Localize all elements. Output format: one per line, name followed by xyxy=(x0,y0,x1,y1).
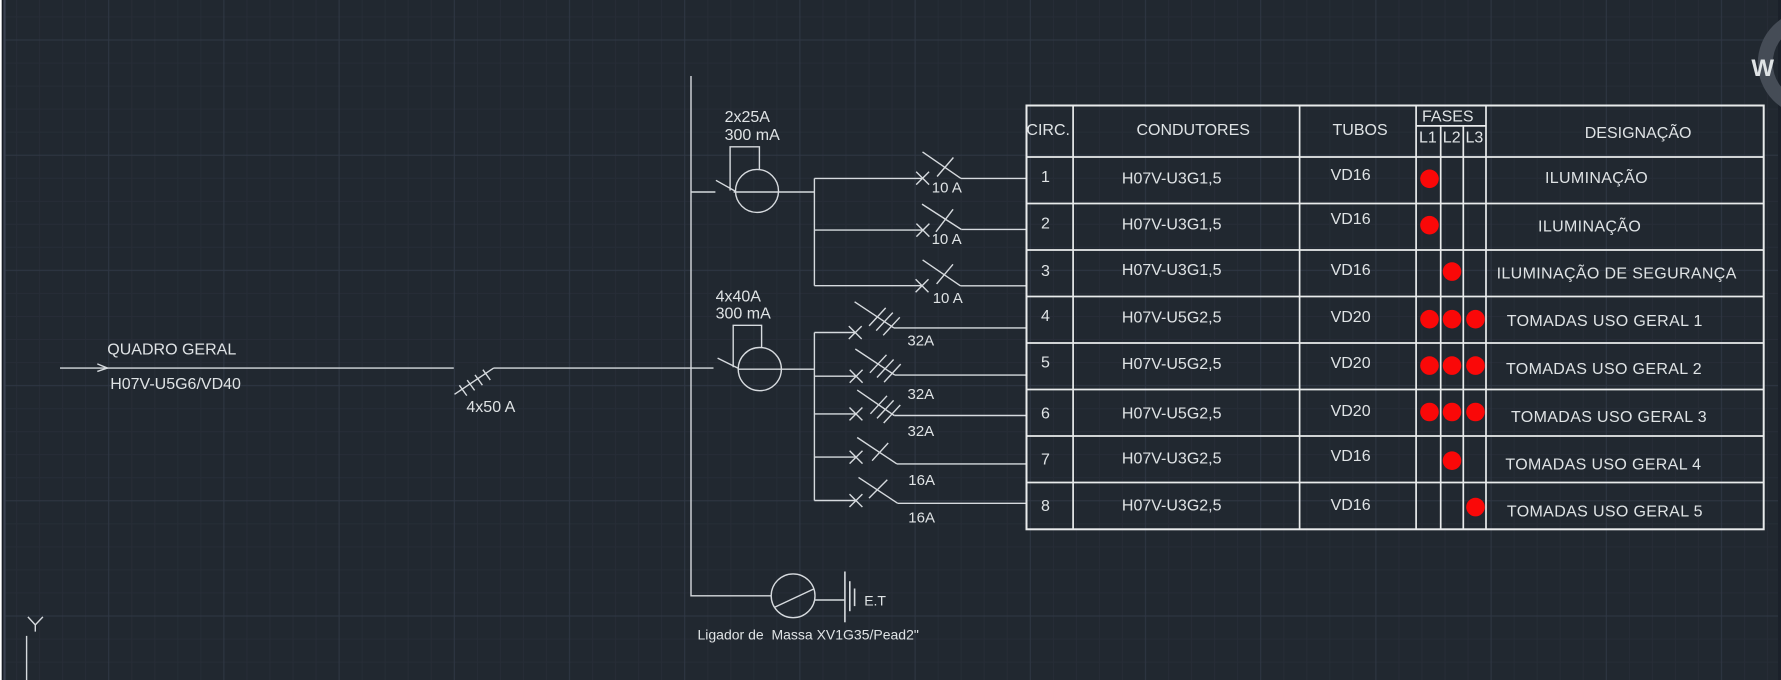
svg-text:H07V-U3G1,5: H07V-U3G1,5 xyxy=(1122,217,1222,234)
svg-text:L1: L1 xyxy=(1419,130,1437,147)
svg-text:W: W xyxy=(1751,55,1774,82)
svg-text:7: 7 xyxy=(1041,451,1050,468)
svg-text:H07V-U5G2,5: H07V-U5G2,5 xyxy=(1122,356,1222,373)
svg-text:E.T: E.T xyxy=(864,593,886,609)
svg-text:TOMADAS USO GERAL 2: TOMADAS USO GERAL 2 xyxy=(1506,361,1702,378)
svg-text:32A: 32A xyxy=(908,423,935,440)
svg-text:16A: 16A xyxy=(908,510,935,527)
svg-text:VD20: VD20 xyxy=(1331,309,1371,326)
svg-text:8: 8 xyxy=(1041,498,1050,515)
svg-text:VD16: VD16 xyxy=(1331,497,1371,514)
svg-text:H07V-U5G2,5: H07V-U5G2,5 xyxy=(1122,406,1222,423)
svg-text:10 A: 10 A xyxy=(933,290,963,307)
svg-text:16A: 16A xyxy=(908,472,935,489)
svg-text:VD16: VD16 xyxy=(1331,262,1371,279)
svg-text:300 mA: 300 mA xyxy=(725,127,780,144)
svg-text:TOMADAS USO GERAL 4: TOMADAS USO GERAL 4 xyxy=(1505,457,1701,474)
svg-text:H07V-U3G1,5: H07V-U3G1,5 xyxy=(1122,262,1222,279)
svg-text:TOMADAS USO GERAL 1: TOMADAS USO GERAL 1 xyxy=(1507,313,1703,330)
svg-text:TOMADAS USO GERAL 5: TOMADAS USO GERAL 5 xyxy=(1507,504,1703,521)
svg-text:32A: 32A xyxy=(907,332,934,349)
svg-text:H07V-U3G1,5: H07V-U3G1,5 xyxy=(1122,171,1222,188)
svg-text:3: 3 xyxy=(1041,263,1050,280)
svg-text:H07V-U5G2,5: H07V-U5G2,5 xyxy=(1122,310,1222,327)
svg-text:VD16: VD16 xyxy=(1331,167,1371,184)
svg-text:4x40A: 4x40A xyxy=(716,289,762,306)
svg-text:TOMADAS USO GERAL 3: TOMADAS USO GERAL 3 xyxy=(1511,409,1707,426)
svg-text:L2: L2 xyxy=(1443,130,1461,147)
svg-text:VD20: VD20 xyxy=(1331,355,1371,372)
svg-text:32A: 32A xyxy=(908,386,935,403)
svg-text:Ligador de Massa XV1G35/Pead2: Ligador de Massa XV1G35/Pead2" xyxy=(698,627,919,643)
svg-text:6: 6 xyxy=(1041,405,1050,422)
svg-text:4: 4 xyxy=(1041,308,1050,325)
svg-text:ILUMINAÇÃO: ILUMINAÇÃO xyxy=(1545,167,1648,187)
svg-text:ILUMINAÇÃO: ILUMINAÇÃO xyxy=(1538,215,1641,235)
svg-text:2x25A: 2x25A xyxy=(725,109,771,126)
svg-text:CIRC.: CIRC. xyxy=(1026,122,1070,139)
svg-text:H07V-U5G6/VD40: H07V-U5G6/VD40 xyxy=(110,376,241,393)
svg-text:VD20: VD20 xyxy=(1331,403,1371,420)
svg-text:4x50 A: 4x50 A xyxy=(466,399,515,416)
svg-text:10 A: 10 A xyxy=(932,179,962,196)
svg-text:2: 2 xyxy=(1041,215,1050,232)
svg-text:10 A: 10 A xyxy=(932,231,962,248)
svg-text:5: 5 xyxy=(1041,355,1050,372)
svg-text:VD16: VD16 xyxy=(1331,211,1371,228)
svg-text:H07V-U3G2,5: H07V-U3G2,5 xyxy=(1122,497,1222,514)
svg-text:ILUMINAÇÃO DE SEGURANÇA: ILUMINAÇÃO DE SEGURANÇA xyxy=(1497,263,1737,283)
svg-text:CONDUTORES: CONDUTORES xyxy=(1136,122,1250,139)
svg-text:300 mA: 300 mA xyxy=(716,305,771,322)
svg-text:1: 1 xyxy=(1041,169,1050,186)
svg-text:TUBOS: TUBOS xyxy=(1333,122,1388,139)
svg-text:FASES: FASES xyxy=(1422,108,1474,125)
svg-text:QUADRO GERAL: QUADRO GERAL xyxy=(107,341,236,358)
svg-text:DESIGNAÇÃO: DESIGNAÇÃO xyxy=(1585,122,1692,142)
svg-text:L3: L3 xyxy=(1466,130,1484,147)
svg-text:H07V-U3G2,5: H07V-U3G2,5 xyxy=(1122,450,1222,467)
svg-text:VD16: VD16 xyxy=(1331,448,1371,465)
